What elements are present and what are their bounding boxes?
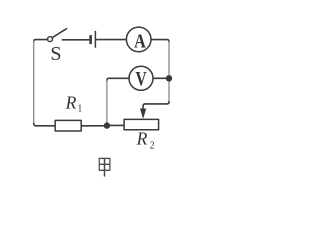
wire: left side: [33, 41, 35, 124]
wire: ammeter to top-right corner: [151, 40, 169, 42]
ammeter U A: [126, 27, 151, 52]
svg-text:R: R: [65, 93, 77, 113]
wire: junction to rheostat R2: [107, 124, 124, 126]
label jia (Chinese: first) drawn strokes: [99, 158, 111, 177]
wire: battery to ammeter: [96, 39, 126, 41]
svg-text:1: 1: [77, 104, 82, 115]
resistor R1 body: [55, 120, 81, 131]
svg-text:S: S: [50, 43, 61, 65]
wire: voltmeter left lead: [107, 78, 129, 80]
wire: switch contact to battery: [63, 39, 90, 41]
wire: top-left to switch pivot: [34, 40, 48, 42]
voltmeter U V: [129, 66, 153, 90]
wire: right side: [168, 41, 170, 103]
svg-text:2: 2: [150, 141, 155, 152]
junction dot: voltmeter tap on right wire: [166, 75, 172, 81]
svg-text:A: A: [134, 30, 146, 52]
junction dot: node between R1 and R2: [104, 122, 110, 128]
wire: bottom-left to resistor R1: [34, 124, 56, 126]
battery cell: [91, 32, 96, 47]
wire: rheostat slider to right side: [143, 102, 169, 110]
rheostat R2 body: [124, 119, 159, 129]
svg-text:V: V: [136, 67, 147, 90]
switch S: [48, 29, 67, 42]
svg-text:R: R: [136, 128, 148, 148]
rheostat slider arrow: [140, 109, 146, 119]
wire: voltmeter right lead: [153, 77, 169, 79]
wire: voltmeter lead down to junction: [106, 80, 108, 126]
wire: R1 to junction: [81, 125, 107, 127]
